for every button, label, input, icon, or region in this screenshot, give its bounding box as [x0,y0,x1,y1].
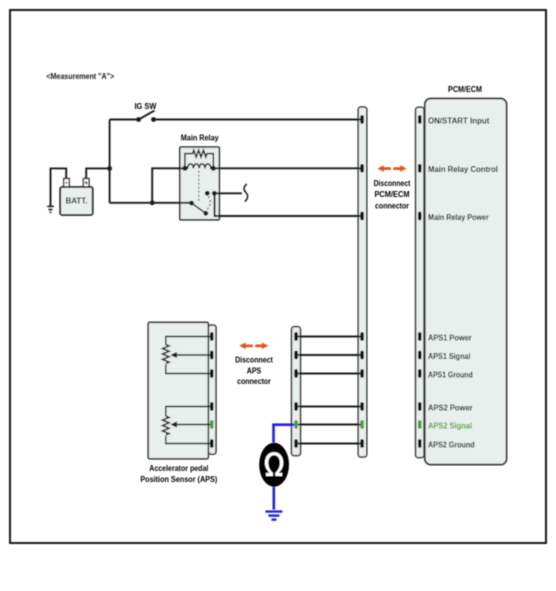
svg-text:BATT.: BATT. [66,196,88,205]
svg-text:APS2 Signal: APS2 Signal [428,421,472,431]
svg-text:APS1 Signal: APS1 Signal [428,351,470,361]
svg-text:ON/START Input: ON/START Input [428,116,490,125]
svg-text:PCM/ECM: PCM/ECM [448,85,482,95]
svg-text:IG SW: IG SW [134,101,156,111]
svg-text:APS2 Ground: APS2 Ground [428,440,475,450]
svg-text:connector: connector [375,201,409,211]
svg-text:APS1 Ground: APS1 Ground [428,370,473,380]
svg-text:Main Relay Control: Main Relay Control [428,165,498,174]
svg-text:Accelerator pedal: Accelerator pedal [149,463,208,473]
svg-text:Position Sensor (APS): Position Sensor (APS) [140,475,217,485]
svg-text:APS: APS [247,366,261,376]
svg-text:PCM/ECM: PCM/ECM [374,190,409,200]
svg-text:<Measurement "A">: <Measurement "A"> [46,72,114,82]
svg-text:APS2 Power: APS2 Power [428,403,473,413]
svg-text:APS1 Power: APS1 Power [428,333,472,343]
svg-text:Disconnect: Disconnect [235,355,273,365]
svg-text:connector: connector [237,376,271,386]
svg-text:Main Relay Power: Main Relay Power [428,212,489,222]
svg-text:Disconnect: Disconnect [374,178,411,188]
svg-text:Main Relay: Main Relay [181,133,219,143]
